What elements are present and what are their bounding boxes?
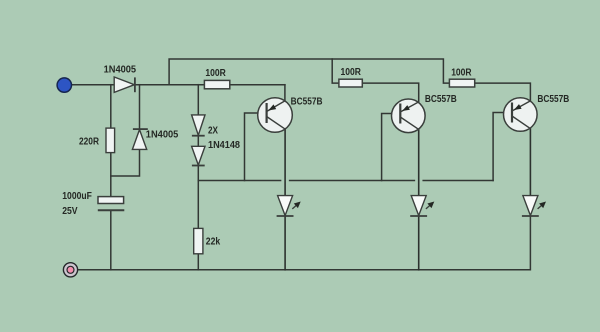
output terminal (pink/gray) xyxy=(63,263,77,277)
wire LED2 cathode to ground rail xyxy=(418,216,420,270)
wire 220R bottom to capacitor xyxy=(110,153,112,197)
svg-text:25V: 25V xyxy=(62,206,78,217)
resistor R3 100R (stage 2) xyxy=(339,79,362,87)
wire Q3 base vertical xyxy=(493,113,512,181)
svg-text:100R: 100R xyxy=(205,68,225,79)
wire 1N4148 column top xyxy=(197,85,199,115)
wire top rail xyxy=(169,59,449,85)
wire link 220R/cap column to D2 bottom xyxy=(111,149,140,176)
svg-text:BC557B: BC557B xyxy=(425,94,457,105)
wire 100R #2 right to Q2 emitter xyxy=(362,83,418,102)
resistor R1 220R xyxy=(106,128,115,153)
wire 100R right to Q1 emitter drop xyxy=(230,84,285,86)
resistor R5 22k xyxy=(194,228,203,253)
wire Q1 collector to LED1 xyxy=(284,129,286,196)
svg-text:1N4148: 1N4148 xyxy=(208,140,241,151)
svg-text:100R: 100R xyxy=(341,67,361,78)
wire cap bottom to ground rail xyxy=(110,211,112,270)
input terminal (blue) xyxy=(57,78,71,92)
resistor R2 100R (stage 1) xyxy=(204,80,229,88)
wire bias line segment 1 xyxy=(198,180,280,182)
resistor R4 100R (stage 3) xyxy=(449,79,474,87)
wire Q3 collector to LED3 xyxy=(529,129,531,196)
wire Q1 base vertical xyxy=(245,113,267,181)
svg-text:1N4005: 1N4005 xyxy=(146,130,179,141)
svg-text:220R: 220R xyxy=(79,136,99,147)
wire between the two 1N4148 diodes xyxy=(197,136,199,147)
LED D5 (stage 1) xyxy=(277,196,301,216)
capacitor C1 1000uF top plate xyxy=(98,197,124,204)
LED D7 (stage 3) xyxy=(522,196,546,216)
wire 100R #3 right to Q3 emitter xyxy=(475,83,531,101)
wire Q1 emitter vertical xyxy=(284,85,286,101)
svg-text:100R: 100R xyxy=(451,67,471,78)
wire 220R top xyxy=(110,85,112,128)
svg-text:22k: 22k xyxy=(206,237,221,248)
svg-text:2X: 2X xyxy=(208,126,218,137)
wire D1 cathode to R2 100R left xyxy=(135,84,205,86)
diode D2 1N4005 vertical xyxy=(132,129,147,149)
LED D6 (stage 2) xyxy=(410,196,434,216)
svg-text:BC557B: BC557B xyxy=(537,94,569,105)
wire bottom ground rail xyxy=(77,216,530,270)
wire 1N4148 bottom to 22k top xyxy=(197,166,199,229)
diode D3 1N4148 upper xyxy=(192,115,205,136)
diode D4 1N4148 lower xyxy=(192,146,205,165)
transistor Q3 BC557B xyxy=(504,98,538,132)
wire D2 top xyxy=(139,85,141,129)
wire rail drop to 100R #2 xyxy=(332,59,339,83)
wire Q2 base vertical xyxy=(382,114,401,181)
svg-text:1N4005: 1N4005 xyxy=(104,65,137,76)
transistor Q2 BC557B xyxy=(392,99,426,133)
wire bias line segment 3 (jumps over LED2 column) xyxy=(423,180,493,182)
wire bias line segment 2 (jumps over LED1 column) xyxy=(290,180,415,182)
diode D1 1N4005 horizontal xyxy=(114,77,135,92)
wire 22k bottom to ground rail xyxy=(197,254,199,270)
wire main node from input terminal to D1 anode xyxy=(71,84,114,86)
transistor Q1 BC557B xyxy=(258,98,293,133)
wire LED1 cathode to ground rail xyxy=(284,216,286,270)
svg-text:1000uF: 1000uF xyxy=(62,191,92,202)
capacitor C1 bottom plate xyxy=(98,209,125,211)
svg-text:BC557B: BC557B xyxy=(291,96,323,107)
wire Q2 collector to LED2 xyxy=(418,129,420,195)
